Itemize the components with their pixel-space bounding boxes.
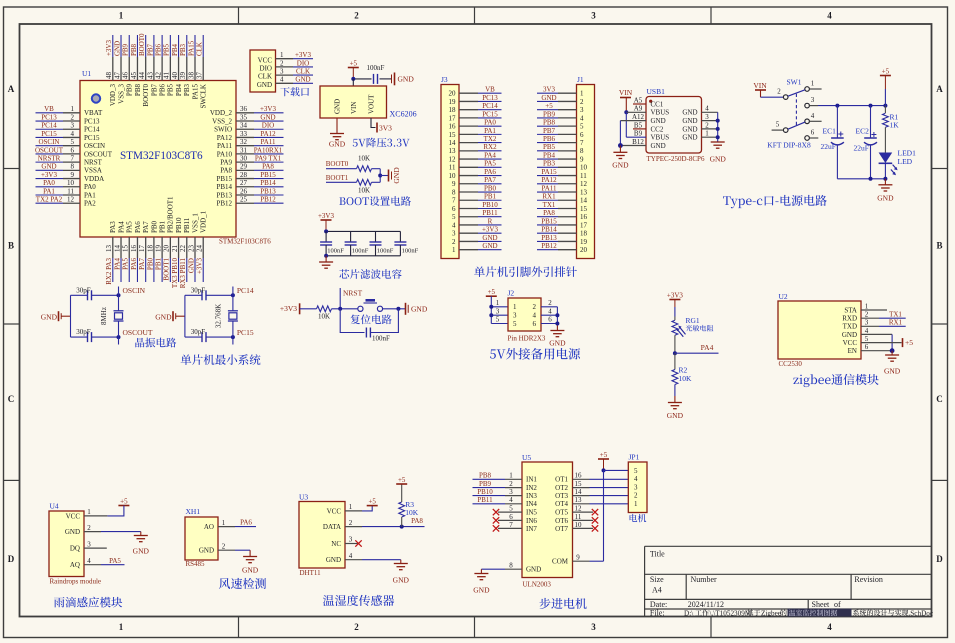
capacitor 30pF top — [71, 286, 119, 300]
wire J1 pin 9 net PB4 — [537, 151, 577, 159]
wire net PB15 to U1 pin 28 — [236, 171, 284, 179]
connector download port — [250, 50, 276, 92]
svg-text:4: 4 — [71, 130, 75, 138]
svg-text:12: 12 — [580, 180, 588, 188]
wire U2 pin6 EN to gnd — [861, 343, 894, 353]
svg-text:35: 35 — [240, 113, 248, 121]
wire net PB14 to U1 pin 27 — [236, 179, 284, 187]
svg-text:B: B — [936, 241, 942, 251]
wire net PB6 to U1 pin 42 — [155, 35, 163, 81]
svg-text:+3V3: +3V3 — [196, 258, 204, 275]
wire J1 pin 18 net PB14 — [537, 226, 577, 234]
svg-text:PB13: PB13 — [541, 234, 557, 242]
svg-text:PB6: PB6 — [159, 84, 167, 97]
svg-text:8: 8 — [452, 188, 456, 196]
svg-text:39: 39 — [179, 72, 187, 80]
svg-text:OT4: OT4 — [555, 500, 568, 508]
svg-text:NC: NC — [331, 540, 341, 548]
svg-text:NRST: NRST — [343, 289, 363, 298]
svg-text:2: 2 — [865, 311, 869, 319]
svg-text:SWCLK: SWCLK — [200, 84, 208, 109]
svg-text:13: 13 — [575, 496, 583, 504]
svg-text:VB: VB — [44, 105, 54, 113]
wire SW1 pin3 to power rail — [810, 104, 888, 108]
svg-text:GND: GND — [65, 528, 80, 536]
svg-text:GND: GND — [651, 142, 666, 150]
svg-text:TX2 PA2: TX2 PA2 — [36, 196, 63, 204]
wire net RX2 PA3 to U1 pin 13 — [105, 237, 113, 285]
svg-text:PB4: PB4 — [175, 84, 183, 97]
label zigbee title — [793, 374, 878, 387]
svg-text:4: 4 — [580, 114, 584, 122]
svg-text:3: 3 — [452, 230, 456, 238]
svg-text:NRSTR: NRSTR — [38, 155, 61, 163]
wire filter cap top rail — [324, 229, 400, 233]
ground GND bar crystal — [155, 311, 185, 321]
wire VOUT to 3V3 — [371, 118, 392, 133]
wire net CLK to U1 pin 37 — [196, 35, 204, 81]
switch SW1 KFT DIP-8X8 — [772, 78, 822, 141]
wire J3 pin 13 net RX2 — [459, 143, 502, 151]
resistor R2 10K — [672, 353, 692, 402]
wire J1 pin 15 net TX1 — [537, 201, 577, 209]
svg-text:5: 5 — [496, 316, 500, 324]
svg-text:B9: B9 — [634, 130, 643, 138]
module U4 raindrops — [49, 502, 101, 586]
svg-text:PA7: PA7 — [138, 258, 146, 270]
svg-text:VCC: VCC — [258, 56, 273, 64]
wire U5 pin 1 net PB8 — [473, 472, 523, 480]
svg-text:2: 2 — [280, 59, 284, 67]
wire net +3V3 to U1 pin 48 — [105, 35, 113, 81]
svg-text:13: 13 — [449, 147, 457, 155]
node OSCOUT — [117, 328, 153, 344]
wire U5 pin 13 OT4 to JP1 — [573, 496, 629, 504]
svg-text:6: 6 — [580, 131, 584, 139]
svg-text:PA15: PA15 — [541, 168, 557, 176]
svg-text:5: 5 — [71, 138, 75, 146]
svg-text:17: 17 — [449, 114, 457, 122]
svg-text:PB3: PB3 — [183, 84, 191, 97]
svg-text:2: 2 — [548, 299, 552, 307]
svg-text:2: 2 — [87, 524, 91, 532]
svg-text:RX1: RX1 — [542, 193, 556, 201]
wire J3 pin 7 net PB1 — [459, 193, 502, 201]
svg-text:STA: STA — [844, 306, 857, 314]
svg-text:OT6: OT6 — [555, 517, 568, 525]
svg-text:RX3 PB11: RX3 PB11 — [179, 258, 187, 289]
svg-text:BOOT0: BOOT0 — [142, 84, 150, 107]
title block — [645, 546, 932, 617]
svg-text:A4: A4 — [652, 586, 662, 595]
svg-text:PA5: PA5 — [122, 258, 130, 270]
label minimum system title — [181, 354, 261, 365]
svg-text:A5: A5 — [634, 96, 643, 104]
svg-text:5: 5 — [776, 121, 780, 129]
svg-text:2: 2 — [634, 492, 638, 500]
svg-text:VCC: VCC — [327, 507, 342, 515]
wire J1 pin 4 net PB9 — [537, 110, 577, 118]
svg-text:GND: GND — [682, 125, 697, 133]
resistor 10K reset — [317, 306, 332, 321]
svg-text:KFT DIP-8X8: KFT DIP-8X8 — [767, 140, 811, 149]
wire net PA6 to U1 pin 16 — [130, 237, 138, 282]
wire J1 pin 5 net PB8 — [537, 119, 577, 127]
svg-text:+5: +5 — [600, 451, 608, 459]
wire net VB to U1 pin 1 — [36, 105, 81, 113]
wire U4 pin2 GND — [84, 524, 141, 532]
wire J1 pin 6 net PB7 — [537, 127, 577, 135]
svg-text:PA12: PA12 — [217, 134, 233, 142]
wire net PA5 to U1 pin 15 — [122, 237, 130, 282]
svg-text:VIN: VIN — [753, 81, 767, 90]
svg-text:PB14: PB14 — [260, 179, 276, 187]
svg-text:IN7: IN7 — [526, 525, 537, 533]
wire net PA9 TX1 to U1 pin 30 — [236, 155, 284, 163]
svg-text:PC15: PC15 — [237, 328, 254, 337]
wire J3 pin 15 net PA1 — [459, 127, 502, 135]
wire U5 pin 11 no-connect — [573, 513, 599, 524]
driver U5 ULN2003 — [522, 453, 573, 589]
wire net NRSTR to U1 pin 7 — [36, 155, 81, 163]
svg-text:8: 8 — [580, 147, 584, 155]
svg-text:GND: GND — [651, 117, 666, 125]
svg-text:PB12: PB12 — [541, 242, 557, 250]
svg-text:VCC: VCC — [843, 339, 858, 347]
svg-text:PB9: PB9 — [479, 480, 492, 488]
svg-text:PA5: PA5 — [484, 160, 496, 168]
svg-text:PB0: PB0 — [146, 258, 154, 271]
svg-text:14: 14 — [575, 488, 583, 496]
wire J1 pin 3 net +5 — [537, 102, 577, 110]
svg-text:13: 13 — [580, 188, 588, 196]
svg-text:SWIO: SWIO — [214, 126, 232, 134]
svg-text:2: 2 — [777, 88, 781, 96]
capacitor EC1 22uF — [821, 106, 844, 179]
wire U5 pin 7 no-connect — [493, 521, 522, 532]
wire J1 pin 12 net PA12 — [537, 176, 577, 184]
power +3V3 sensor — [667, 291, 684, 307]
svg-text:GND: GND — [667, 411, 684, 420]
svg-text:28: 28 — [240, 171, 248, 179]
svg-text:PA7: PA7 — [142, 221, 150, 233]
svg-text:GND: GND — [541, 94, 556, 102]
svg-text:DIO: DIO — [260, 65, 272, 73]
svg-text:PA11: PA11 — [541, 184, 557, 192]
svg-text:PB13: PB13 — [260, 187, 276, 195]
svg-text:100nF: 100nF — [372, 334, 390, 342]
svg-text:DQ: DQ — [70, 545, 80, 553]
label BOOT title — [339, 196, 411, 206]
wire U4 pin4 AQ net PA5 — [84, 557, 125, 565]
svg-text:3: 3 — [87, 540, 91, 548]
ground GND bar right of cap — [392, 73, 415, 86]
LED1 diode — [879, 127, 916, 179]
svg-text:TX2: TX2 — [484, 135, 497, 143]
wire XH1 pin2 GND — [218, 543, 250, 557]
svg-text:PB0: PB0 — [484, 184, 497, 192]
wire net BOOT0 to U1 pin 44 — [138, 33, 146, 81]
capacitor 100nF filter C2 — [345, 231, 369, 255]
svg-text:D:\: D:\ — [684, 609, 693, 617]
wire J3 pin 14 net TX2 — [459, 135, 502, 143]
wire net PB1 to U1 pin 19 — [155, 237, 163, 282]
svg-text:PB9: PB9 — [126, 84, 134, 97]
module U2 CC2530 — [778, 292, 861, 368]
svg-text:PA2: PA2 — [84, 200, 96, 208]
svg-text:GND: GND — [877, 194, 894, 203]
svg-text:GND: GND — [113, 41, 121, 56]
svg-text:IN5: IN5 — [526, 509, 537, 517]
svg-text:OSCOUT: OSCOUT — [123, 328, 153, 337]
svg-text:OSCIN: OSCIN — [38, 138, 59, 146]
svg-text:DATA: DATA — [323, 523, 341, 531]
svg-text:VBUS: VBUS — [651, 109, 670, 117]
svg-text:2: 2 — [354, 622, 359, 632]
wire download port pin 2 net DIO — [276, 59, 314, 67]
wire usb right gnd pins — [702, 105, 720, 142]
svg-text:37: 37 — [196, 72, 204, 80]
svg-text:24: 24 — [196, 245, 204, 253]
capacitor EC2 22uF — [854, 106, 878, 179]
power +3V3 reset — [280, 303, 317, 314]
svg-text:PA12: PA12 — [541, 176, 557, 184]
capacitor 100nF filter C3 — [370, 231, 394, 255]
wire button to gnd — [383, 307, 405, 311]
svg-text:1: 1 — [811, 80, 815, 88]
svg-text:A12: A12 — [632, 113, 645, 121]
svg-text:10: 10 — [575, 521, 583, 529]
svg-text:6: 6 — [865, 343, 869, 351]
svg-text:1: 1 — [222, 519, 226, 527]
svg-text:PA6: PA6 — [130, 258, 138, 270]
svg-text:VSS_1: VSS_1 — [191, 213, 199, 233]
svg-text:PB7: PB7 — [146, 43, 154, 56]
wire net OSCIN to U1 pin 5 — [36, 138, 81, 146]
svg-text:20: 20 — [163, 245, 171, 253]
svg-text:Pin HDR2X3: Pin HDR2X3 — [508, 335, 546, 343]
wire download port pin 1 net +3V3 — [276, 51, 314, 59]
svg-text:A9: A9 — [634, 105, 643, 113]
svg-text:10K: 10K — [679, 374, 693, 383]
svg-text:4: 4 — [509, 496, 513, 504]
svg-text:36: 36 — [240, 105, 248, 113]
svg-text:4: 4 — [827, 11, 832, 21]
svg-text:PB15: PB15 — [260, 171, 276, 179]
label reset circuit title — [351, 314, 392, 324]
resistor R1 1K — [883, 106, 900, 130]
svg-text:100nF: 100nF — [402, 247, 419, 254]
svg-text:A: A — [936, 84, 943, 94]
power +5 stepper — [598, 451, 609, 471]
wire J3 pin 19 net PC13 — [459, 94, 502, 102]
wire J1 pin 14 net RX1 — [537, 193, 577, 201]
node NRST — [340, 288, 362, 309]
svg-text:PA8: PA8 — [220, 167, 232, 175]
svg-text:PB3: PB3 — [543, 160, 556, 168]
svg-text:12: 12 — [449, 155, 457, 163]
svg-text:3V3: 3V3 — [379, 123, 392, 132]
svg-text:RX2: RX2 — [483, 143, 497, 151]
power +5 raindrops — [118, 497, 129, 505]
svg-text:CLK: CLK — [296, 68, 310, 76]
svg-text:16: 16 — [449, 123, 457, 131]
label motor — [630, 514, 647, 522]
svg-text:PB11: PB11 — [183, 217, 191, 233]
label 5V buck title — [353, 138, 410, 148]
wire U2 pin4 GND — [861, 327, 892, 351]
svg-text:17: 17 — [580, 221, 588, 229]
svg-text:4: 4 — [827, 622, 832, 632]
svg-text:PA4: PA4 — [117, 221, 125, 233]
wire net PB13 to U1 pin 26 — [236, 187, 284, 195]
svg-text:PC14: PC14 — [41, 122, 57, 130]
svg-text:4: 4 — [87, 557, 91, 565]
svg-text:D: D — [8, 554, 15, 564]
svg-text:100nF: 100nF — [367, 64, 385, 72]
wire J1 pin 16 net PA8 — [537, 209, 577, 217]
svg-text:GND: GND — [398, 75, 415, 84]
svg-text:16: 16 — [575, 472, 583, 480]
svg-text:J3: J3 — [441, 75, 448, 84]
svg-text:DHT11: DHT11 — [300, 569, 322, 577]
svg-text:GND: GND — [682, 109, 697, 117]
svg-text:34: 34 — [240, 122, 248, 130]
svg-text:PB0: PB0 — [150, 220, 158, 233]
svg-text:J2: J2 — [508, 289, 515, 298]
svg-text:PB10: PB10 — [477, 488, 493, 496]
wire net PB12 to U1 pin 25 — [236, 196, 284, 204]
svg-text:3: 3 — [71, 122, 75, 130]
svg-text:18: 18 — [449, 106, 457, 114]
svg-text:PA4: PA4 — [701, 343, 714, 352]
wire U5 pin 16 OT1 to JP1 — [573, 472, 629, 480]
svg-text:22: 22 — [179, 245, 187, 253]
svg-text:1: 1 — [119, 622, 124, 632]
svg-text:PB11: PB11 — [482, 209, 498, 217]
svg-text:100nF: 100nF — [377, 247, 394, 254]
ground GND below regulator — [329, 118, 346, 149]
svg-text:PC14: PC14 — [84, 126, 100, 134]
wire J3 pin 10 net PA6 — [459, 168, 502, 176]
svg-text:VOUT: VOUT — [368, 94, 376, 114]
svg-text:PA11: PA11 — [217, 142, 233, 150]
svg-text:GND: GND — [41, 312, 58, 321]
svg-text:15: 15 — [449, 131, 457, 139]
svg-text:9: 9 — [580, 155, 584, 163]
svg-text:GND: GND — [187, 258, 195, 273]
svg-text:PA11: PA11 — [260, 138, 276, 146]
svg-text:46: 46 — [122, 72, 130, 80]
wire net PA12 to U1 pin 33 — [236, 130, 284, 138]
svg-text:PB8: PB8 — [130, 43, 138, 56]
wire +5 to COM and JP1 pin5 — [602, 468, 629, 561]
capacitor 30pF top — [185, 286, 233, 300]
svg-text:7: 7 — [71, 155, 75, 163]
svg-text:GND: GND — [393, 576, 410, 585]
svg-text:47: 47 — [113, 72, 121, 80]
svg-text:33: 33 — [240, 130, 248, 138]
svg-text:9: 9 — [71, 171, 75, 179]
wire net PA15 to U1 pin 38 — [187, 35, 195, 81]
svg-text:EC2: EC2 — [856, 127, 870, 136]
wire net +3V3 to U1 pin 9 — [36, 171, 81, 179]
svg-text:VDD_3: VDD_3 — [109, 84, 117, 107]
svg-text:PA5: PA5 — [126, 221, 134, 233]
svg-text:GND: GND — [682, 134, 697, 142]
label type-c power title — [723, 195, 827, 208]
wire U5 pin 6 no-connect — [493, 513, 522, 524]
svg-text:OT5: OT5 — [555, 509, 568, 517]
svg-text:2: 2 — [580, 98, 584, 106]
wire U3 pin4 GND — [345, 552, 401, 564]
svg-text:30: 30 — [240, 155, 248, 163]
svg-text:IN2: IN2 — [526, 484, 537, 492]
svg-text:GND: GND — [242, 566, 259, 575]
wire U5 pin 5 no-connect — [493, 505, 522, 516]
svg-text:C: C — [8, 394, 15, 404]
capacitor 100nF at regulator — [367, 64, 385, 84]
node PC15 — [231, 328, 254, 344]
wire J3 pin 9 net PA7 — [459, 176, 502, 184]
label stepper title — [539, 598, 586, 609]
wire net PB0 to U1 pin 18 — [146, 237, 154, 282]
svg-text:1: 1 — [119, 11, 124, 21]
svg-text:A: A — [8, 84, 15, 94]
svg-text:Revision: Revision — [854, 575, 882, 584]
svg-text:EC1: EC1 — [823, 127, 837, 136]
svg-text:12: 12 — [67, 196, 75, 204]
wire U3 pin2 DATA net PA8 — [345, 517, 425, 528]
wire net PA11 to U1 pin 32 — [236, 138, 284, 146]
svg-text:GND: GND — [329, 140, 346, 149]
wire net PB7 to U1 pin 43 — [146, 35, 154, 81]
svg-text:4: 4 — [811, 112, 815, 120]
svg-text:45: 45 — [130, 72, 138, 80]
svg-text:48: 48 — [105, 72, 113, 80]
svg-text:1: 1 — [509, 472, 513, 480]
svg-text:100nF: 100nF — [327, 247, 344, 254]
svg-text:VSSA: VSSA — [84, 167, 102, 175]
svg-text:CLK: CLK — [196, 42, 204, 56]
svg-text:SW1: SW1 — [787, 78, 802, 87]
svg-text:CC2530: CC2530 — [779, 360, 803, 368]
wire net PC15 to U1 pin 4 — [36, 130, 81, 138]
svg-text:26: 26 — [240, 187, 248, 195]
svg-text:GND: GND — [884, 367, 901, 376]
svg-text:PC14: PC14 — [482, 102, 498, 110]
power +5 DHT11 — [367, 497, 378, 505]
svg-text:2024/11/12: 2024/11/12 — [688, 600, 724, 609]
push button reset S1 — [358, 300, 383, 311]
svg-text:+3V3: +3V3 — [318, 212, 335, 220]
svg-text:OT3: OT3 — [555, 492, 568, 500]
svg-text:CC2: CC2 — [651, 125, 664, 133]
svg-text:VDD_2: VDD_2 — [210, 109, 233, 117]
wire U3 pin3 NC no-connect — [345, 536, 362, 547]
svg-text:PB13: PB13 — [216, 191, 232, 199]
svg-text:.SchDoc: .SchDoc — [909, 609, 934, 617]
svg-text:of: of — [834, 600, 841, 609]
wire U3 pin1 VCC to +5 — [345, 503, 372, 511]
svg-text:27: 27 — [240, 179, 248, 187]
wire J3 pin 6 net PB10 — [459, 201, 502, 209]
svg-text:2: 2 — [533, 303, 537, 311]
svg-text:C: C — [936, 394, 943, 404]
svg-text:GND: GND — [133, 547, 150, 556]
wire J3 pin 12 net PA4 — [459, 151, 502, 159]
wire U5 pin 2 net PB9 — [473, 480, 523, 488]
